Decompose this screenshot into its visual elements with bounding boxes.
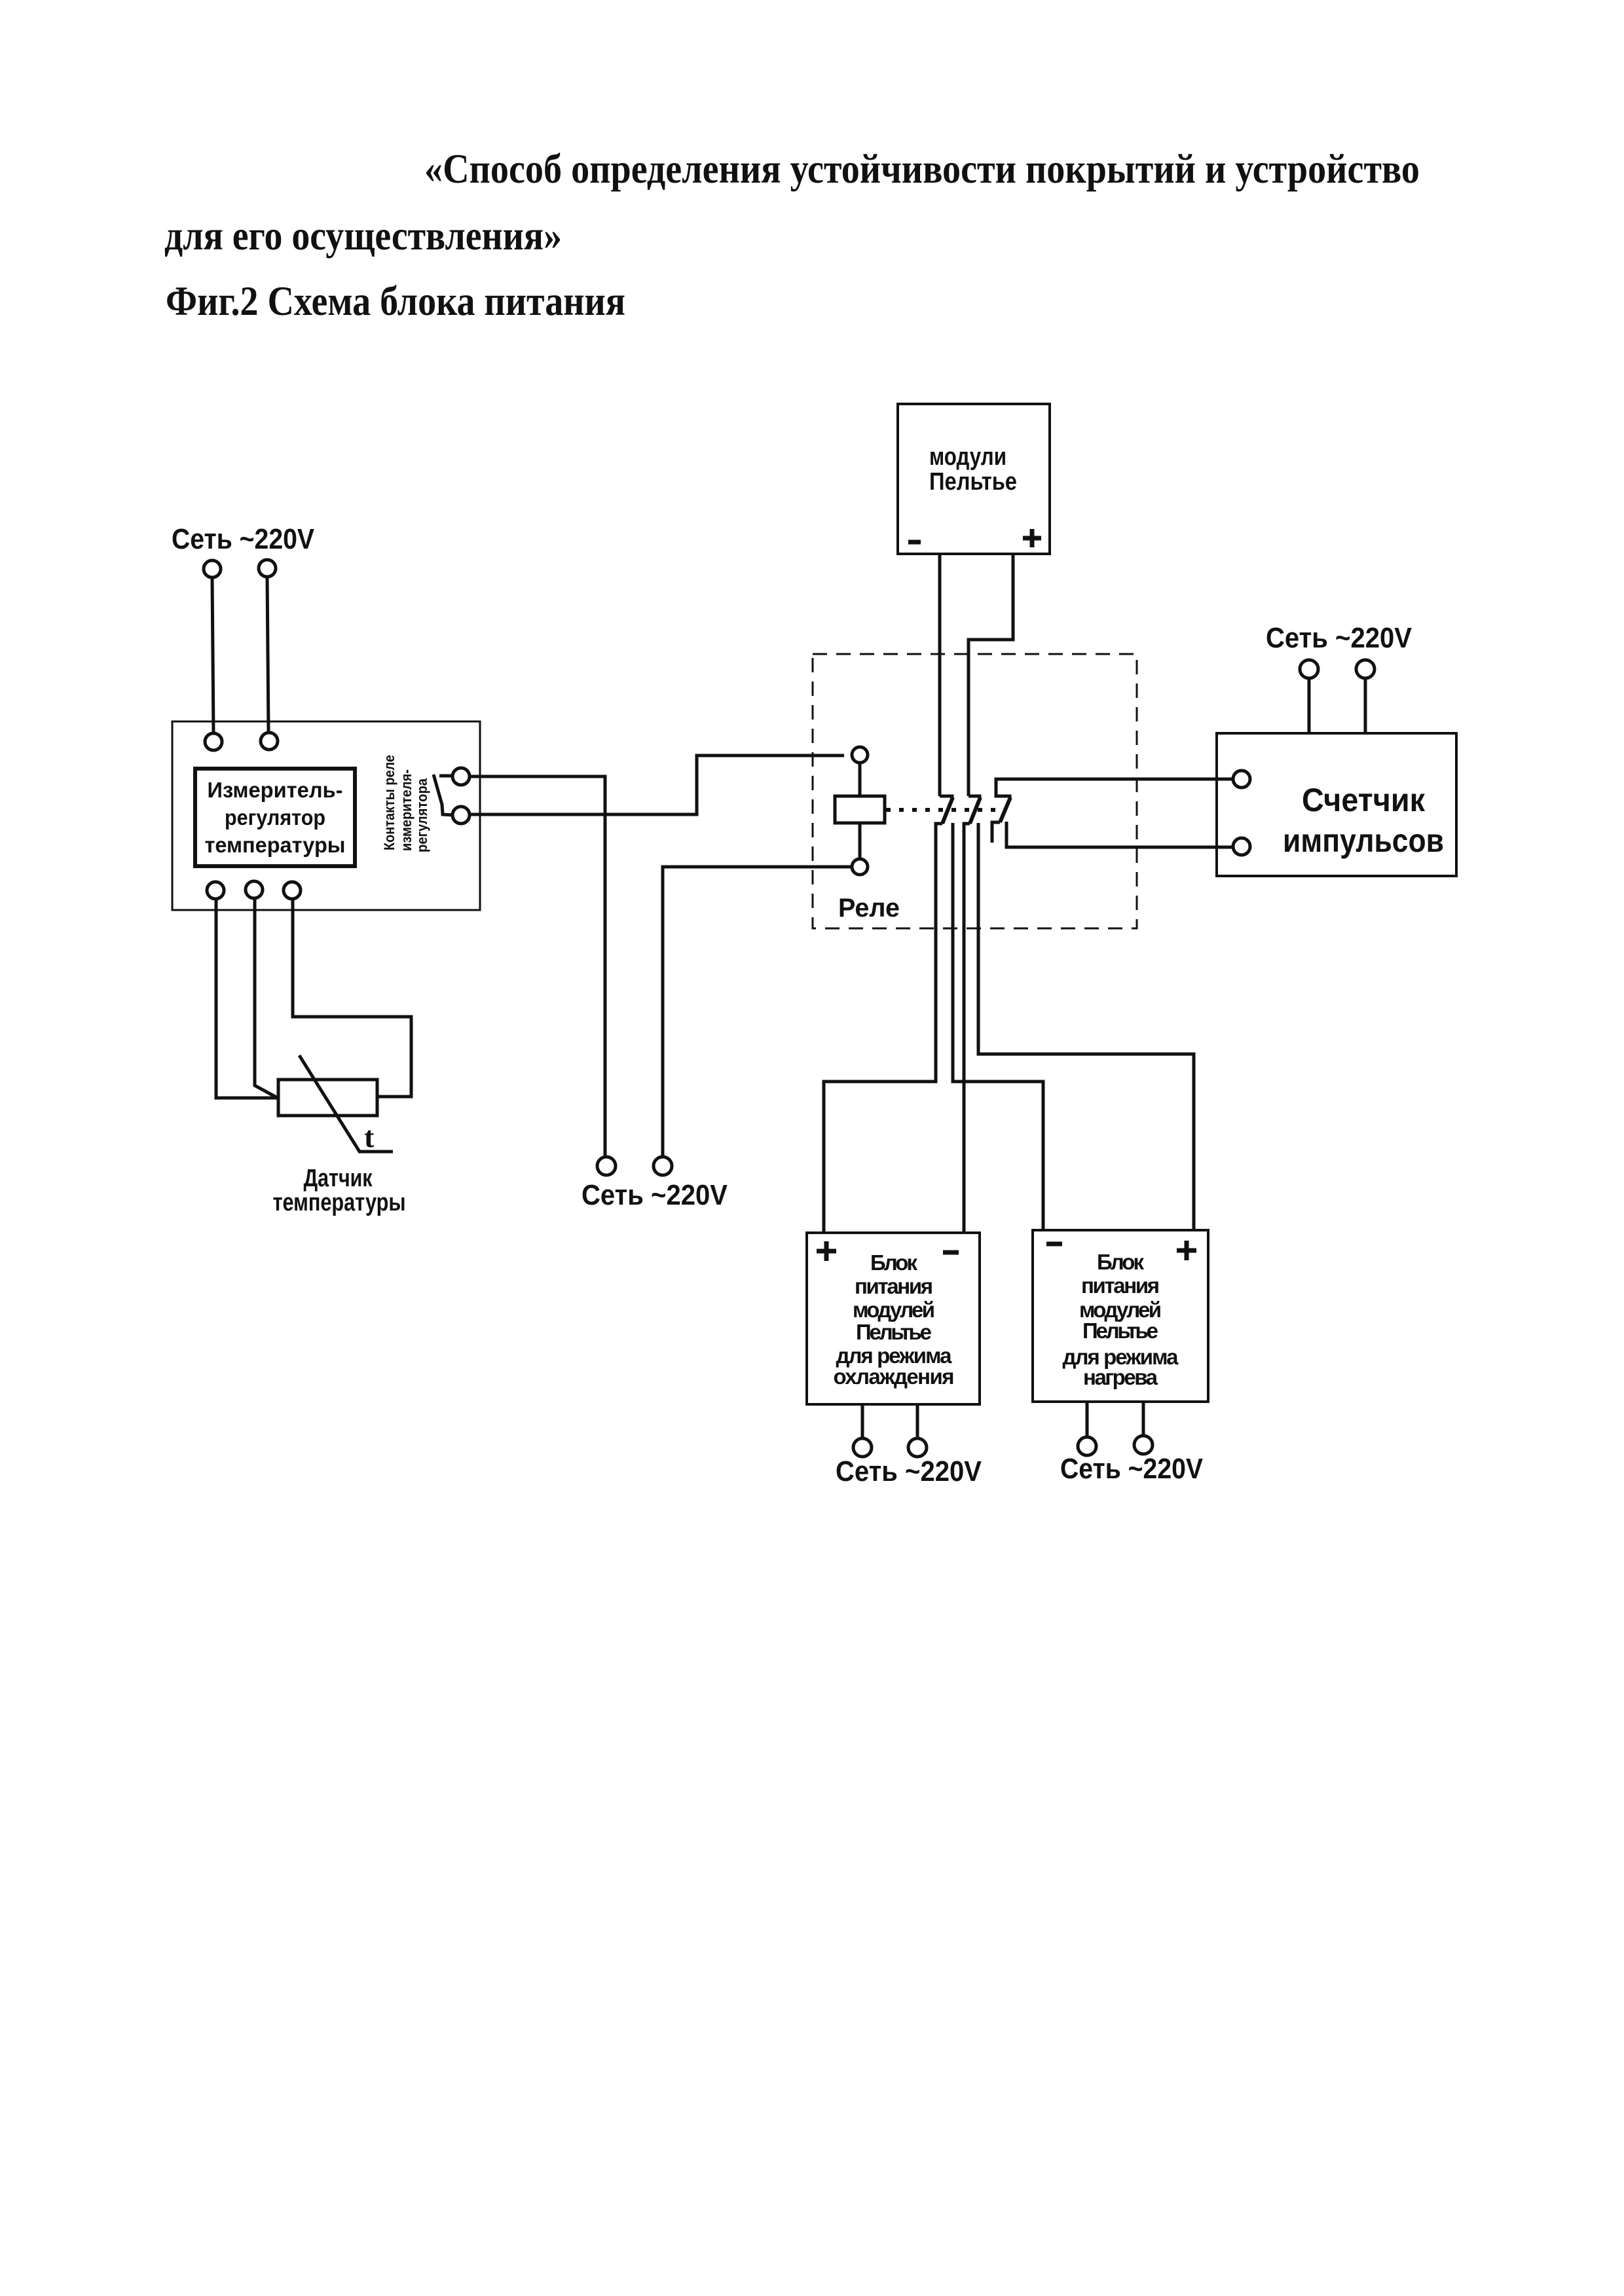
svg-text:для его осуществления»: для его осуществления»: [164, 212, 562, 259]
svg-text:модулей: модулей: [853, 1298, 935, 1322]
wire mains N to regulator: [267, 577, 268, 733]
wire relay coil to lower mains: [663, 867, 852, 1157]
wire contact 2 NO to heating supply plus: [978, 823, 1194, 1229]
regulator output terminal 1: [207, 882, 224, 899]
svg-text:Счетчик: Счетчик: [1302, 782, 1426, 818]
relay contact 2 jog: [969, 796, 980, 799]
svg-text:температуры: температуры: [205, 833, 346, 857]
svg-text:импульсов: импульсов: [1283, 822, 1444, 859]
relay contact 3 arm: [1000, 797, 1010, 822]
relay actuation dotted link: [886, 808, 995, 812]
svg-text:регулятор: регулятор: [225, 805, 325, 829]
svg-text:регулятора: регулятора: [414, 778, 430, 852]
cooling supply minus sign: [943, 1250, 959, 1255]
wire contact 3 NO to counter lower: [1006, 822, 1233, 847]
cooling supply mains terminal 1: [853, 1438, 872, 1457]
svg-text:Пельтье: Пельтье: [1082, 1319, 1158, 1343]
cooling supply box: [807, 1233, 980, 1404]
regulator relay contact arm: [434, 774, 453, 815]
svg-text:Блок: Блок: [870, 1250, 917, 1275]
svg-text:Фиг.2 Схема блока питания: Фиг.2 Схема блока питания: [166, 278, 625, 324]
svg-text:Сеть ~220V: Сеть ~220V: [1060, 1453, 1204, 1485]
relay coil body: [835, 796, 885, 823]
cooling supply label: [834, 1250, 955, 1389]
svg-text:охлаждения: охлаждения: [834, 1364, 955, 1389]
svg-text:Сеть ~220V: Сеть ~220V: [172, 523, 315, 555]
relay contact 1 arm: [942, 797, 953, 824]
relay contact 1 arm step: [936, 824, 942, 826]
wire regulator out 2 to sensor: [255, 898, 278, 1098]
wire Peltier minus down to contact 1: [938, 554, 942, 796]
relay coil terminal top: [852, 747, 868, 763]
svg-text:Измеритель-: Измеритель-: [208, 778, 343, 802]
heating supply minus sign: [1046, 1242, 1062, 1247]
wire counter mains 1: [1308, 678, 1311, 733]
relay contact 3 arm stub: [992, 822, 1000, 843]
regulator output terminal 3: [284, 882, 301, 899]
wire upper contact to lower mains: [469, 776, 605, 1157]
svg-text:«Способ определения устойчивос: «Способ определения устойчивости покрыти…: [424, 145, 1420, 192]
cooling supply mains terminal 2: [908, 1438, 927, 1457]
heating supply label: [1063, 1250, 1179, 1389]
wire lower contact to relay coil: [469, 756, 844, 814]
inner label box: Измеритель-регулятор температуры: [195, 769, 355, 866]
wire mains L to regulator: [212, 577, 213, 733]
wire counter mains 2: [1364, 678, 1367, 733]
counter input terminal lower: [1233, 838, 1250, 855]
regulator output terminal 2: [246, 881, 263, 898]
svg-text:температуры: температуры: [273, 1189, 406, 1216]
cooling supply mains stub 1: [861, 1404, 864, 1438]
terminal circle left mains N: [259, 560, 276, 577]
wire contact 2 NC to cooling supply minus: [963, 824, 966, 1233]
wire contact 1 NO to heating supply minus: [953, 823, 1043, 1231]
wire regulator out 3 to sensor: [293, 899, 411, 1097]
relay coil stem top: [858, 763, 862, 796]
cooling supply mains stub 2: [916, 1404, 919, 1438]
Peltier plus sign: [1023, 529, 1041, 547]
wire counter upper to contact 3: [996, 779, 1233, 799]
wire contact 1 NC to cooling supply plus: [824, 824, 936, 1233]
heating supply mains terminal 1: [1078, 1437, 1096, 1455]
relay dashed enclosure: [813, 654, 1137, 928]
temperature sensor body: [278, 1080, 377, 1116]
temperature sensor diagonal: [299, 1055, 393, 1152]
heating supply plus sign: [1177, 1241, 1196, 1260]
wire Peltier plus down to contact 2: [969, 554, 1013, 796]
relay contact 1 jog: [940, 796, 952, 799]
terminal circle counter mains 1: [1300, 660, 1318, 678]
relay contact 2 arm step: [964, 824, 970, 826]
regulator input terminal 2: [261, 733, 278, 750]
svg-text:питания: питания: [1081, 1273, 1160, 1298]
svg-text:Реле: Реле: [838, 894, 900, 922]
svg-text:Датчик: Датчик: [304, 1165, 373, 1192]
svg-text:измерителя-: измерителя-: [398, 769, 415, 851]
terminal circle left mains L: [204, 560, 221, 577]
svg-text:Блок: Блок: [1097, 1250, 1144, 1274]
wire regulator out 1 to sensor: [216, 899, 278, 1098]
svg-text:Пельтье: Пельтье: [929, 468, 1017, 496]
pulse counter box: [1217, 733, 1456, 876]
Peltier minus sign: [908, 540, 921, 545]
relay contact 2 arm: [970, 797, 980, 824]
heating supply box: [1033, 1230, 1208, 1402]
heating supply mains terminal 2: [1134, 1436, 1153, 1454]
terminal circle lower mains 1: [597, 1157, 616, 1175]
relay coil terminal bottom: [852, 859, 868, 875]
regulator contact terminal upper: [452, 768, 470, 785]
svg-text:нагрева: нагрева: [1083, 1365, 1158, 1389]
counter input terminal upper: [1233, 771, 1250, 788]
heating supply mains stub 2: [1142, 1402, 1145, 1436]
cooling supply plus sign: [817, 1241, 836, 1261]
relay coil stem bottom: [858, 823, 862, 859]
svg-text:Сеть ~220V: Сеть ~220V: [836, 1455, 982, 1487]
Peltier modules box: [898, 404, 1050, 554]
heating supply mains stub 1: [1086, 1402, 1089, 1438]
svg-text:Контакты реле: Контакты реле: [381, 755, 397, 850]
svg-text:Сеть ~220V: Сеть ~220V: [581, 1179, 728, 1211]
svg-text:Сеть ~220V: Сеть ~220V: [1266, 622, 1412, 654]
svg-text:модули: модули: [929, 443, 1006, 471]
terminal circle counter mains 2: [1356, 660, 1375, 678]
svg-text:t: t: [364, 1120, 375, 1154]
svg-text:Пельтье: Пельтье: [856, 1320, 932, 1344]
svg-text:питания: питания: [855, 1274, 933, 1298]
regulator relay contact tick: [439, 774, 452, 778]
regulator contact terminal lower: [452, 807, 470, 824]
temperature regulator unit box: [172, 721, 480, 910]
regulator input terminal 1: [205, 733, 222, 750]
terminal circle lower mains 2: [654, 1157, 672, 1175]
